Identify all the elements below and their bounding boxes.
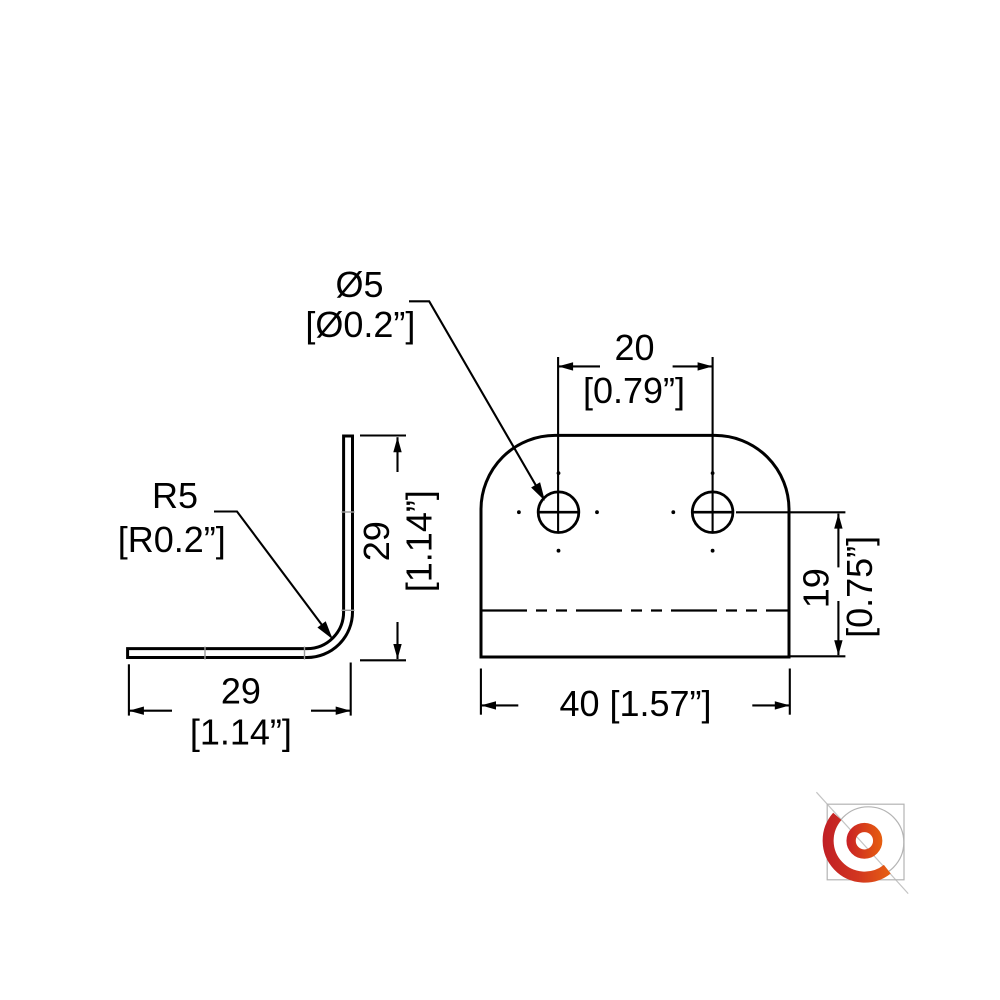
leader diameter arrowhead	[532, 483, 543, 498]
hole left cross horizontal	[538, 511, 578, 514]
arrow right	[775, 701, 790, 709]
svg-text:[Ø0.2”]: [Ø0.2”]	[305, 304, 415, 345]
svg-text:[1.14”]: [1.14”]	[398, 490, 439, 592]
hole right cross horizontal	[692, 511, 732, 514]
leader diameter	[409, 301, 544, 498]
svg-text:29: 29	[356, 521, 397, 561]
arrow right	[336, 707, 351, 715]
dimension 29 vertical line top	[396, 437, 398, 472]
svg-text:[1.14”]: [1.14”]	[190, 712, 292, 753]
dimension 20 line left	[558, 365, 600, 367]
dimension 20 line right	[673, 365, 713, 367]
dimension 40 line left	[481, 704, 518, 706]
logo diagonal line	[816, 792, 908, 893]
svg-text:[0.75”]: [0.75”]	[839, 536, 880, 638]
arrow down	[393, 644, 401, 659]
svg-text:R5: R5	[152, 475, 198, 516]
dimension 19 line bottom	[837, 601, 839, 655]
arrow down	[834, 640, 842, 655]
logo group	[816, 792, 908, 893]
arrow up	[393, 437, 401, 452]
svg-text:[R0.2”]: [R0.2”]	[118, 519, 226, 560]
dimension 29 horizontal extension left	[128, 664, 130, 715]
arrow left	[558, 362, 573, 370]
dimension 40 line right	[752, 704, 790, 706]
logo circle outline	[833, 807, 904, 878]
dimension 40 extension right	[789, 669, 791, 715]
dimension 29 vertical extension top	[360, 434, 406, 436]
dimension 40 extension left	[480, 669, 482, 715]
segment tick bend tangent vertical	[342, 609, 355, 611]
leader R5	[214, 512, 331, 638]
svg-text:Ø5: Ø5	[335, 264, 383, 305]
dimension 19 line top	[837, 514, 839, 568]
dimension 29 horizontal line right	[311, 710, 351, 712]
dimension 29 horizontal extension right	[350, 663, 352, 716]
dimension 29 vertical line bottom	[396, 622, 398, 659]
dash-dot fold line	[481, 609, 790, 611]
hole right circle	[692, 492, 733, 533]
side view L-profile	[128, 436, 353, 658]
front view body	[481, 435, 789, 657]
arrow up	[834, 514, 842, 529]
arrow right	[698, 362, 713, 370]
segment tick horizontal mid	[204, 647, 206, 660]
logo inner ring	[851, 828, 878, 855]
dimension 29 horizontal line left	[129, 710, 172, 712]
arrow left	[481, 701, 496, 709]
logo square	[827, 804, 904, 880]
hole right center dots	[671, 510, 675, 514]
segment tick vertical mid	[342, 511, 355, 513]
dimension 19 extension bottom	[790, 655, 846, 657]
svg-text:29: 29	[221, 671, 261, 712]
svg-text:40 [1.57”]: 40 [1.57”]	[559, 683, 711, 724]
leader R5 arrowhead	[319, 622, 331, 637]
arrow left	[129, 707, 144, 715]
segment tick bend tangent horizontal	[304, 647, 306, 660]
hole left center dots	[517, 510, 521, 514]
hole left centerline vertical	[557, 357, 559, 532]
svg-text:[0.79”]: [0.79”]	[583, 370, 685, 411]
hole left circle	[538, 492, 579, 533]
dimension 19 reference top	[736, 511, 845, 513]
hole right centerline vertical	[712, 357, 714, 532]
svg-text:20: 20	[614, 327, 654, 368]
logo outer arc	[828, 816, 887, 877]
dimension 29 vertical extension bottom	[360, 659, 406, 661]
svg-text:19: 19	[796, 568, 837, 608]
